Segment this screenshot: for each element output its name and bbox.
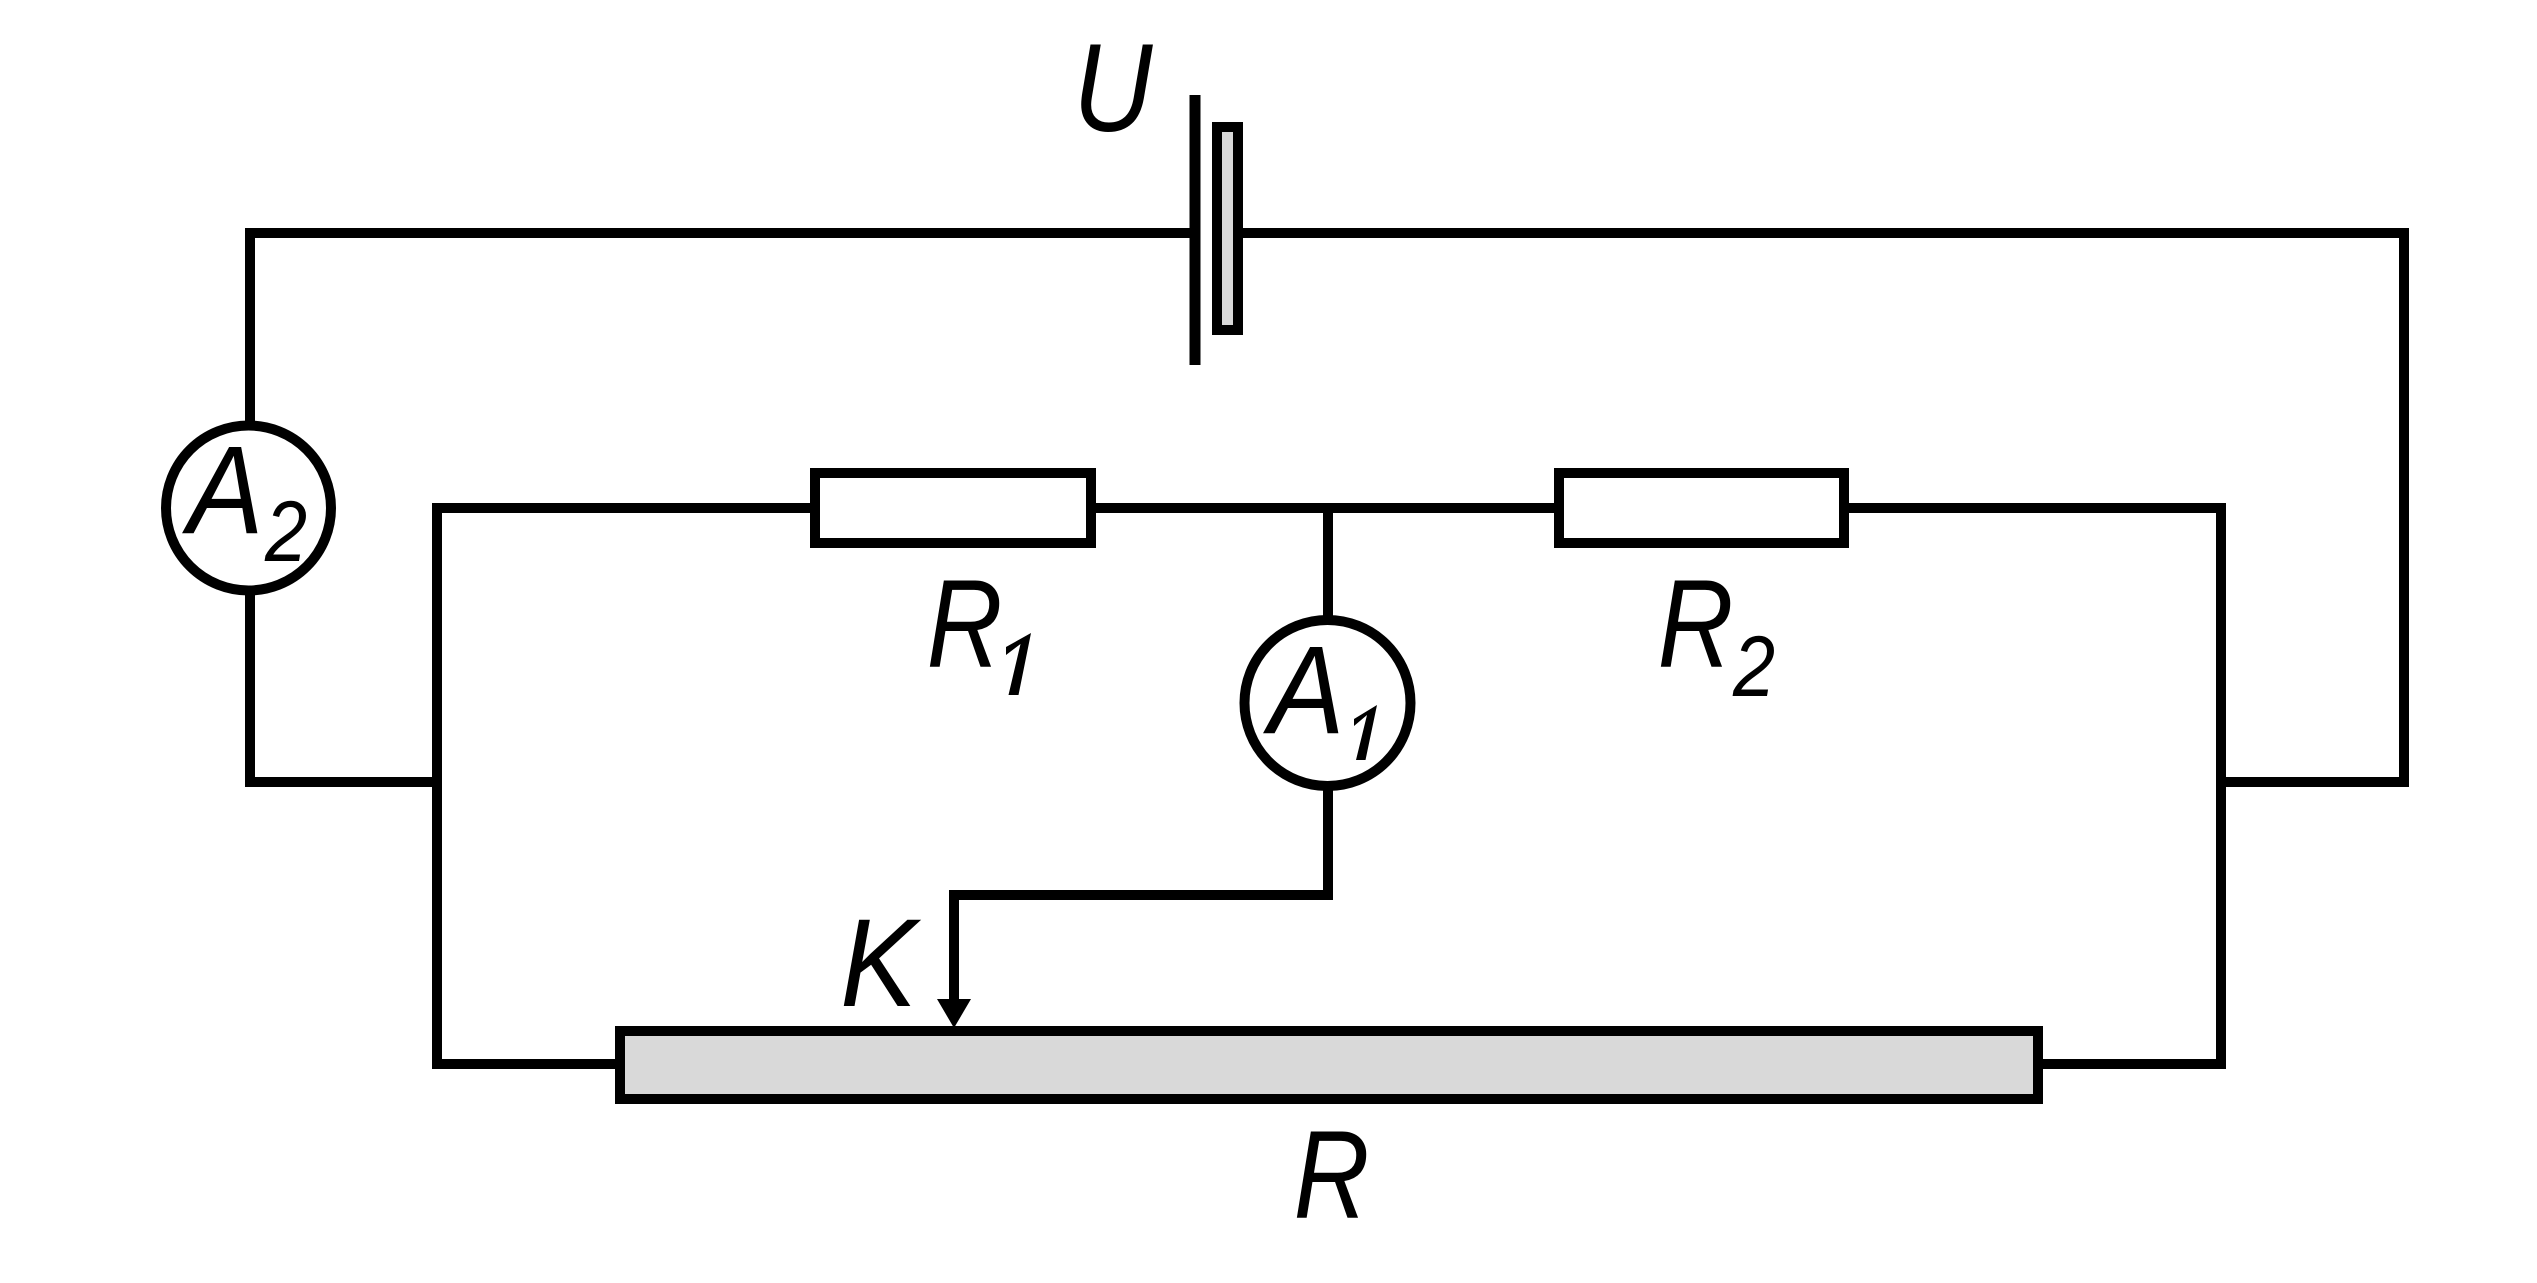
label U <box>1073 17 1153 157</box>
battery U short plate (negative) <box>1217 127 1238 330</box>
svg-text:2: 2 <box>264 485 307 581</box>
ammeter A1 <box>1245 620 1411 786</box>
wire left branch: node A vertical down to rheostat left lead <box>437 503 620 1064</box>
label K <box>840 894 921 1033</box>
battery U long plate (positive) <box>1190 95 1201 365</box>
wire from battery left terminal to A2 top (top-left loop) <box>250 233 1195 421</box>
wire right branch: node B vertical down to rheostat right lead <box>2043 503 2221 1064</box>
wire from battery right terminal along top to right outer vertical and jog to node B <box>1243 233 2404 782</box>
wire from A1 bottom left to wiper arm K <box>954 780 1328 1002</box>
label A2 subscript 2 <box>264 485 307 581</box>
svg-text:R: R <box>1294 1106 1370 1245</box>
label R2 letter R <box>1658 555 1734 694</box>
wiper K arrowhead <box>937 999 971 1028</box>
label A1 letter A <box>1263 621 1345 760</box>
wire middle row through R1 and R2 <box>432 503 2226 513</box>
wire from A2 bottom down and right to node A <box>250 590 442 782</box>
svg-text:A: A <box>182 421 264 560</box>
rheostat R track <box>620 1031 2038 1099</box>
label R1 subscript 1 <box>1006 633 1031 695</box>
svg-text:A: A <box>1263 621 1345 760</box>
resistor R1 <box>815 473 1091 543</box>
svg-text:2: 2 <box>1732 620 1775 716</box>
svg-text:R: R <box>927 555 1003 694</box>
resistor R2 <box>1559 473 1844 543</box>
svg-text:R: R <box>1658 555 1734 694</box>
svg-text:K: K <box>840 894 921 1033</box>
ammeter A2 <box>166 426 331 591</box>
label R2 subscript 2 <box>1732 620 1775 716</box>
label A1 subscript 1 <box>1354 705 1377 760</box>
label A2 letter A <box>182 421 264 560</box>
svg-text:U: U <box>1073 17 1153 157</box>
wire junction stub from middle row down to A1 top <box>1323 508 1333 630</box>
label R1 letter R <box>927 555 1003 694</box>
label R <box>1294 1106 1370 1245</box>
